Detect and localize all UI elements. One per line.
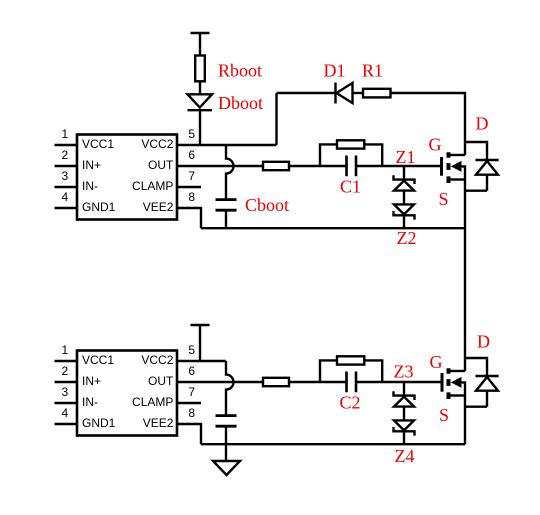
pin 4 stub lower (55, 423, 78, 425)
svg-text:IN-: IN- (82, 395, 98, 409)
svg-text:2: 2 (62, 364, 69, 378)
body diode lower (465, 358, 499, 407)
wire Z3-Z4 (403, 407, 405, 421)
pin 7 CLAMP stub lower (177, 402, 201, 404)
svg-text:VCC2: VCC2 (141, 137, 173, 151)
svg-text:Z3: Z3 (394, 362, 414, 382)
Q1 drain stub (449, 154, 465, 156)
wire Q1 source to Q2 drain (464, 180, 466, 372)
IC U1 box (77, 135, 177, 220)
ground (213, 461, 240, 475)
wire OUT left segment lower (177, 381, 347, 383)
svg-text:IN-: IN- (82, 179, 98, 193)
svg-text:VCC1: VCC1 (82, 353, 114, 367)
svg-text:7: 7 (188, 169, 195, 183)
svg-text:1: 1 (62, 127, 69, 141)
capacitor lower (unlabeled) (216, 416, 237, 427)
svg-text:8: 8 (188, 190, 195, 204)
wire Z2 to rail (403, 215, 405, 228)
capacitor C2 (347, 372, 357, 393)
wire Cboot riser with hop (226, 145, 234, 198)
Q2 channel dashes (447, 368, 451, 399)
svg-text:VCC2: VCC2 (141, 353, 173, 367)
zener Z2 (394, 204, 415, 219)
svg-text:OUT: OUT (148, 158, 174, 172)
wire OUT right segment to gate lower (356, 381, 442, 383)
wire OUT left segment (177, 165, 347, 167)
resistor parallel lower (unlabeled) (337, 356, 364, 364)
supply T-bar top (191, 33, 210, 56)
pin 1 stub lower (55, 360, 78, 362)
svg-text:3: 3 (62, 169, 69, 183)
pin 2 stub (55, 165, 78, 167)
wire R1 to drain riser (391, 93, 466, 155)
svg-text:GND1: GND1 (82, 200, 116, 214)
zener Z1 (394, 175, 415, 190)
svg-text:7: 7 (188, 385, 195, 399)
wire Cboot to rail (225, 211, 227, 228)
svg-text:IN+: IN+ (82, 374, 101, 388)
transistor Q2 gate bar (441, 373, 444, 392)
wire parallel loop (320, 144, 382, 166)
svg-text:D1: D1 (324, 61, 346, 81)
wire riser to D1 (275, 93, 277, 145)
resistor gate R (unlabeled) (263, 162, 289, 170)
zener Z4 (394, 420, 415, 435)
svg-text:4: 4 (62, 190, 69, 204)
resistor Rboot (195, 56, 205, 82)
Q1 channel dashes (447, 152, 451, 183)
wire Rboot-Dboot (199, 81, 201, 94)
Q2 arrow (451, 377, 465, 396)
resistor R1 (363, 89, 391, 98)
svg-text:5: 5 (188, 127, 195, 141)
diode D1 (336, 83, 353, 104)
diode Dboot (188, 94, 213, 110)
svg-text:S: S (439, 405, 449, 425)
Q2 drain stub (449, 370, 465, 372)
svg-text:1: 1 (62, 343, 69, 357)
svg-text:C2: C2 (340, 393, 361, 413)
svg-text:2: 2 (62, 148, 69, 162)
svg-text:G: G (430, 352, 443, 372)
svg-text:R1: R1 (362, 61, 383, 81)
svg-text:3: 3 (62, 385, 69, 399)
rail lower (201, 443, 465, 445)
body diode upper (465, 142, 499, 191)
svg-text:6: 6 (188, 148, 195, 162)
wire Z1-Z2 (403, 191, 405, 205)
zener Z3 (394, 391, 415, 406)
Q2 source stub (449, 394, 465, 396)
svg-text:VEE2: VEE2 (143, 416, 174, 430)
pin 2 stub lower (55, 381, 78, 383)
svg-text:IN+: IN+ (82, 158, 101, 172)
svg-text:VCC1: VCC1 (82, 137, 114, 151)
svg-text:Z1: Z1 (396, 147, 416, 167)
svg-text:8: 8 (188, 406, 195, 420)
transistor Q1 gate bar (440, 157, 443, 176)
svg-text:5: 5 (188, 343, 195, 357)
wire Z4 to rail (403, 431, 405, 444)
svg-text:Cboot: Cboot (245, 195, 289, 215)
svg-text:CLAMP: CLAMP (132, 395, 173, 409)
svg-text:6: 6 (188, 364, 195, 378)
wire OUT right segment to gate (356, 165, 442, 167)
wire Q2 source to rail (464, 396, 466, 445)
capacitor C1 (347, 156, 357, 177)
IC U2 box (77, 351, 177, 436)
svg-text:CLAMP: CLAMP (132, 179, 173, 193)
svg-text:G: G (429, 135, 442, 155)
pin 4 stub (55, 207, 78, 209)
resistor parallel (unlabeled) (337, 140, 364, 148)
svg-text:D: D (476, 114, 489, 134)
wire VEE2 to rail (177, 208, 201, 228)
wire zener riser Z1 (403, 166, 405, 180)
capacitor Cboot (216, 200, 237, 211)
wire to D1 (277, 92, 336, 94)
wire cap to ground (225, 427, 227, 461)
rail upper (VEE2 bus) (201, 227, 465, 229)
wire zener riser Z3 (403, 382, 405, 396)
svg-text:Z4: Z4 (395, 446, 415, 466)
wire VCC2 pin5 (177, 144, 277, 146)
wire Dboot to VCC2 node (199, 110, 201, 145)
svg-text:VEE2: VEE2 (143, 200, 174, 214)
wire D1-R1 (353, 92, 364, 94)
pin 7 CLAMP stub (177, 186, 201, 188)
wire VEE2 to rail lower (177, 424, 201, 444)
Q1 arrow (451, 161, 465, 180)
svg-text:C1: C1 (340, 177, 361, 197)
svg-text:Z2: Z2 (397, 228, 417, 248)
resistor gate R lower (unlabeled) (263, 378, 289, 386)
svg-text:OUT: OUT (148, 374, 174, 388)
wire VCC2 pin5 lower (177, 360, 226, 362)
svg-text:4: 4 (62, 406, 69, 420)
supply T-bar lower (191, 325, 210, 361)
Q1 source stub (449, 178, 465, 180)
svg-text:Rboot: Rboot (218, 61, 262, 81)
pin 3 stub lower (55, 402, 78, 404)
svg-text:GND1: GND1 (82, 416, 116, 430)
pin 1 stub (55, 144, 78, 146)
svg-text:S: S (439, 189, 449, 209)
svg-text:Dboot: Dboot (218, 93, 263, 113)
wire cap riser with hop lower (226, 361, 234, 414)
pin 3 stub (55, 186, 78, 188)
wire parallel loop lower (320, 360, 382, 382)
svg-text:D: D (477, 332, 490, 352)
